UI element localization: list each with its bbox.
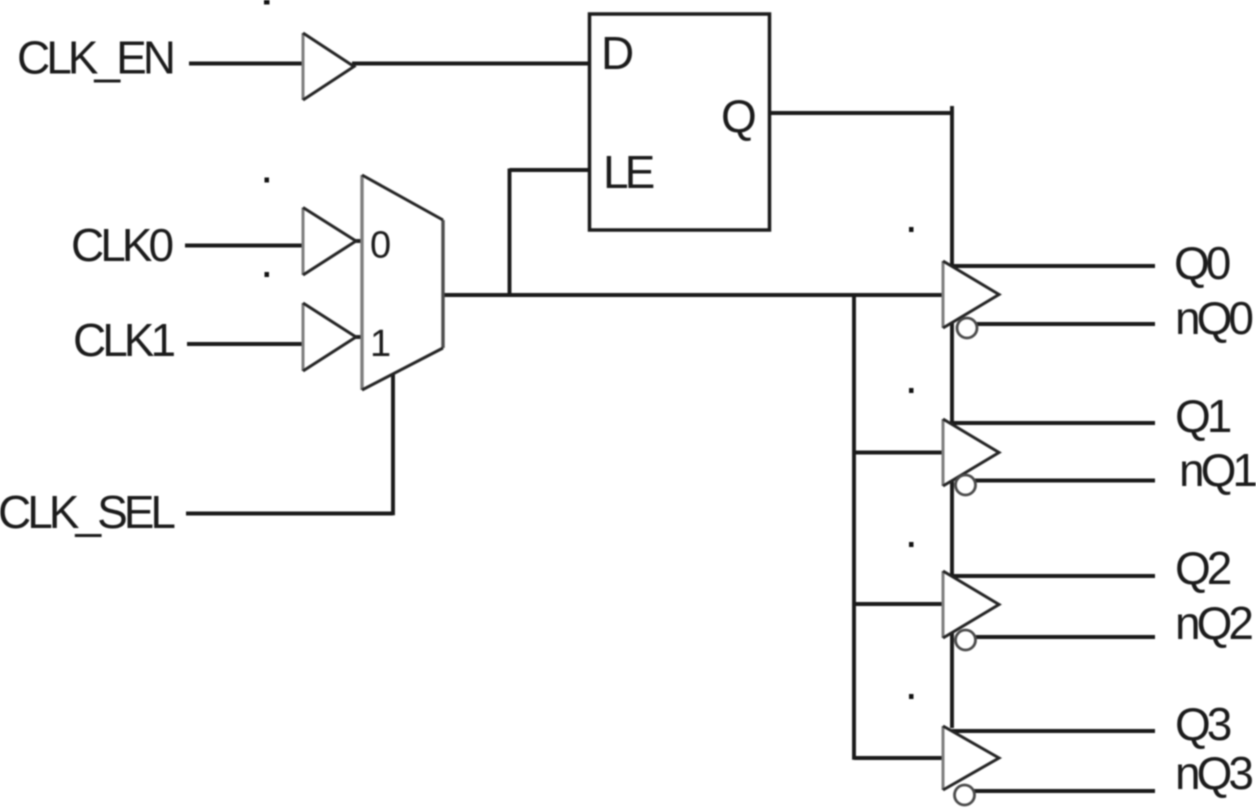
wire stub to buffer 2 input [854, 451, 944, 455]
node dot right 3 [909, 542, 914, 547]
svg-text:D: D [601, 27, 633, 79]
wire buffer to D pin [352, 62, 588, 66]
node dot left lower [265, 272, 270, 277]
svg-text:CLK0: CLK0 [71, 219, 172, 271]
wire mux output main horizontal [441, 293, 944, 297]
wire nQ0 output [974, 322, 1155, 326]
wire LE vertical [508, 169, 512, 297]
wire Q0 output [950, 264, 1155, 268]
svg-text:0: 0 [370, 225, 390, 267]
wire Q2 output [950, 574, 1155, 578]
svg-text:nQ3: nQ3 [1175, 747, 1252, 799]
buffer CLK0 [303, 208, 356, 276]
svg-text:CLK_SEL: CLK_SEL [0, 486, 175, 538]
wire Q output horizontal [770, 111, 954, 115]
wire nQ3 output [974, 789, 1155, 793]
node dot right 2 [909, 388, 914, 393]
svg-text:LE: LE [603, 146, 654, 198]
node dot right 4 [909, 694, 914, 699]
wire CLK1 to buffer [187, 342, 304, 346]
svg-text:Q3: Q3 [1175, 698, 1231, 750]
wire CLK0 buffer to mux pin 0 [354, 239, 364, 243]
wire CLK1 buffer to mux pin 1 [354, 335, 364, 339]
wire CLK0 to buffer [185, 244, 304, 248]
buffer CLK_EN [303, 33, 354, 100]
svg-text:Q: Q [721, 90, 755, 142]
svg-text:1: 1 [370, 323, 390, 365]
output buffer Q0/nQ0 [943, 261, 999, 338]
wire nQ2 output [974, 635, 1155, 639]
wire CLK_SEL horizontal [186, 512, 393, 516]
wire right trunk vertical [950, 106, 954, 728]
wire Q1 output [950, 421, 1155, 425]
node dot left upper [265, 178, 270, 183]
wire CLK_EN to buffer [189, 62, 304, 66]
wire left trunk vertical [852, 293, 856, 759]
wire Q3 output [950, 729, 1155, 733]
latch U1 box [590, 14, 770, 230]
buffer CLK1 [303, 303, 356, 371]
svg-text:Q2: Q2 [1175, 542, 1231, 594]
wire stub to buffer 3 input [854, 602, 944, 606]
svg-text:Q1: Q1 [1175, 390, 1231, 442]
wire nQ1 output [974, 479, 1155, 483]
svg-text:nQ2: nQ2 [1175, 597, 1252, 649]
svg-text:Q0: Q0 [1174, 237, 1230, 289]
wire stub to buffer 4 input [854, 756, 944, 760]
svg-text:CLK1: CLK1 [73, 314, 174, 366]
node dot right 1 [909, 227, 914, 232]
output buffer Q2/nQ2 [943, 571, 999, 650]
svg-text:CLK_EN: CLK_EN [17, 32, 173, 84]
svg-text:nQ0: nQ0 [1175, 292, 1252, 344]
output buffer Q1/nQ1 [943, 419, 999, 495]
wire LE horizontal to latch [510, 168, 589, 172]
output buffer Q3/nQ3 [943, 726, 999, 805]
top edge tick mark [264, 0, 270, 5]
svg-text:nQ1: nQ1 [1179, 444, 1256, 496]
mux 2:1 [362, 175, 443, 390]
wire CLK_SEL vertical to mux select [391, 374, 395, 515]
